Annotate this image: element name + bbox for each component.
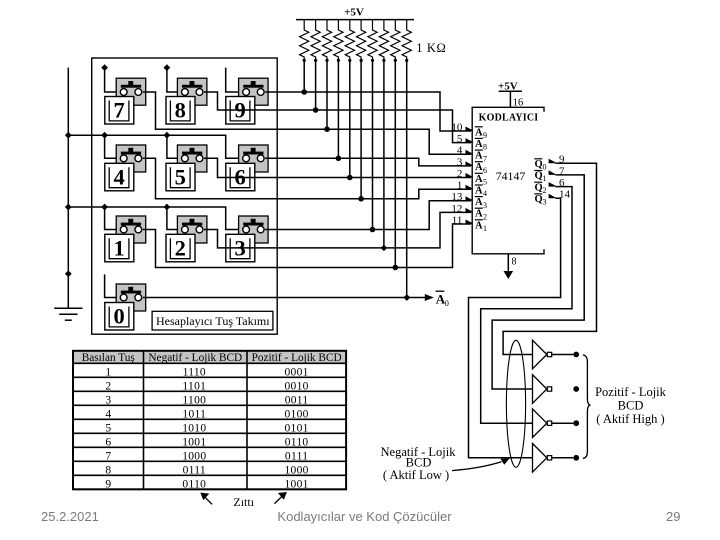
node row456 stub4 junction <box>101 132 108 139</box>
svg-text:1: 1 <box>105 366 111 378</box>
input arrow A7 <box>466 150 473 155</box>
wire pull-up column 5 <box>349 61 351 178</box>
svg-text:+5V: +5V <box>344 7 364 19</box>
resistor R5 1K pull-up <box>345 20 354 61</box>
wire inverter 4 output <box>552 457 574 459</box>
node row123 stub2 junction <box>164 204 171 211</box>
svg-text:0111: 0111 <box>183 464 206 476</box>
push-button switch key 9 <box>239 78 269 105</box>
svg-text:1000: 1000 <box>284 464 308 476</box>
node rail-row123 junction <box>65 204 72 211</box>
node column8 junction <box>381 245 387 251</box>
svg-text:1001: 1001 <box>284 478 308 490</box>
input arrow A1 <box>466 220 473 225</box>
svg-text:4: 4 <box>483 189 487 198</box>
resistor R2 1K pull-up <box>311 20 320 61</box>
wire pull-up column 8 <box>383 61 385 248</box>
node inverter 1 output dot <box>573 352 579 358</box>
svg-text:1: 1 <box>457 180 463 192</box>
wire stub key8 <box>167 68 181 92</box>
wire key1 to A1 <box>143 224 471 268</box>
push-button switch key 2 <box>177 216 207 243</box>
input arrow A9 <box>466 127 473 132</box>
svg-text:8: 8 <box>105 464 111 476</box>
svg-text:0001: 0001 <box>284 366 308 378</box>
wire key5 to A5 <box>204 158 471 177</box>
resistor R9 1K pull-up <box>391 20 400 61</box>
svg-text:Basılan Tuş: Basılan Tuş <box>82 352 135 364</box>
svg-text:A: A <box>475 127 483 138</box>
node column3 junction <box>324 126 330 132</box>
resistor R4 1K pull-up <box>334 20 343 61</box>
svg-text:4: 4 <box>113 164 124 189</box>
wire stub key1 <box>105 207 120 230</box>
svg-text:5: 5 <box>175 164 186 189</box>
svg-text:12: 12 <box>451 203 462 215</box>
svg-text:1: 1 <box>543 174 547 183</box>
svg-text:2: 2 <box>105 380 111 392</box>
node rail-row0 junction <box>65 270 72 277</box>
node inverter 3 output dot <box>573 420 579 426</box>
node inverter 4 output dot <box>573 455 579 461</box>
wire Q1 to inverter 2 <box>492 175 584 389</box>
wire pull-up column 6 <box>360 61 362 199</box>
svg-text:0111: 0111 <box>285 450 308 462</box>
push-button switch key 5 <box>177 145 207 172</box>
inverter U3 triangle <box>533 375 547 404</box>
ellipse annotation around inverter inputs <box>506 340 525 467</box>
svg-text:11: 11 <box>452 214 463 226</box>
input arrow A8 <box>466 138 473 143</box>
svg-text:Zıttı: Zıttı <box>233 495 254 509</box>
arrow into node A0 <box>425 294 434 301</box>
input arrow A3 <box>466 196 473 201</box>
wire key4 to A4 <box>143 158 471 199</box>
svg-text:KODLAYICI: KODLAYICI <box>479 113 539 124</box>
svg-text:1000: 1000 <box>182 450 206 462</box>
node column2 junction <box>313 107 319 113</box>
svg-text:13: 13 <box>451 191 463 203</box>
arrow Zit right <box>275 496 283 503</box>
svg-text:( Aktif High ): ( Aktif High ) <box>596 412 664 426</box>
svg-text:74147: 74147 <box>496 169 526 183</box>
wire key7 to A7 <box>143 92 471 154</box>
svg-text:2: 2 <box>457 168 463 180</box>
push-button switch key 7 <box>116 78 146 105</box>
svg-text:3: 3 <box>457 156 463 168</box>
wire key3 to A3 <box>265 201 471 230</box>
svg-text:3: 3 <box>483 201 487 210</box>
svg-text:0011: 0011 <box>285 394 309 406</box>
keypad left rail wire <box>67 68 69 309</box>
wire stub key9 <box>226 68 242 92</box>
node column7 junction <box>370 227 376 233</box>
svg-text:Negatif - Lojik BCD: Negatif - Lojik BCD <box>148 352 242 364</box>
wire key8 to A8 <box>204 92 471 143</box>
svg-text:( Aktif Low ): ( Aktif Low ) <box>383 468 449 482</box>
push-button switch key 0 <box>116 284 146 311</box>
wire Q2 to inverter 3 <box>481 187 572 424</box>
svg-text:25.2.2021: 25.2.2021 <box>41 509 99 524</box>
wire inverter 1 output <box>552 354 574 356</box>
svg-text:3: 3 <box>543 198 547 207</box>
wire key0 to A0 node <box>143 297 427 299</box>
node column5 junction <box>347 175 353 181</box>
svg-text:0110: 0110 <box>285 436 309 448</box>
svg-text:0100: 0100 <box>284 408 308 420</box>
inverter U4 triangle <box>533 409 547 438</box>
pin 8 GND stub wire <box>507 254 509 272</box>
push-button switch key 1 <box>116 216 146 243</box>
wire Q0 to inverter 1 <box>503 163 596 354</box>
svg-text:Hesaplayıcı Tuş Takımı: Hesaplayıcı Tuş Takımı <box>156 314 270 328</box>
svg-text:1010: 1010 <box>182 422 206 434</box>
svg-text:1 KΩ: 1 KΩ <box>416 41 446 55</box>
push-button switch key 8 <box>177 78 207 105</box>
brace for positive-logic outputs <box>583 355 591 459</box>
svg-text:A: A <box>475 151 483 162</box>
svg-text:BCD: BCD <box>618 398 644 412</box>
push-button switch key 6 <box>239 145 269 172</box>
svg-text:0101: 0101 <box>284 422 308 434</box>
wire stub key7 <box>105 68 120 92</box>
op-amp, encoder IC U1 74147 box outline <box>472 107 544 254</box>
svg-text:5: 5 <box>483 178 487 187</box>
svg-text:A: A <box>475 174 483 185</box>
svg-text:2: 2 <box>483 212 487 221</box>
svg-text:7: 7 <box>483 154 487 163</box>
svg-text:1011: 1011 <box>182 408 206 420</box>
node column6 junction <box>358 196 364 202</box>
node row-789 stub junction B <box>164 64 171 71</box>
resistor R1 1K pull-up <box>300 20 309 61</box>
+5V supply bus wire <box>296 19 414 21</box>
svg-text:10: 10 <box>451 121 463 133</box>
keypad enclosure box <box>92 58 278 334</box>
resistor R10 1K pull-up <box>402 20 411 61</box>
svg-text:Q: Q <box>535 194 543 205</box>
wire pull-up column 4 <box>337 61 339 158</box>
input arrow A2 <box>466 208 473 213</box>
svg-text:Q: Q <box>535 159 543 170</box>
push-button switch key 3 <box>239 216 269 243</box>
svg-text:A: A <box>475 186 483 197</box>
svg-text:7: 7 <box>113 98 124 123</box>
ground <box>54 307 82 309</box>
wire row-456 bus <box>68 135 241 158</box>
svg-text:29: 29 <box>666 509 680 524</box>
svg-text:1101: 1101 <box>182 380 206 392</box>
svg-text:8: 8 <box>483 143 487 152</box>
wire key9 to A9 <box>265 92 471 131</box>
svg-text:4: 4 <box>105 408 111 420</box>
svg-text:4: 4 <box>457 145 463 157</box>
svg-text:Pozitif - Lojik: Pozitif - Lojik <box>595 385 667 399</box>
node A0 column junction <box>404 294 410 300</box>
keypad caption box Hesaplayici Tus Takimi <box>152 311 273 330</box>
svg-text:7: 7 <box>105 450 111 462</box>
svg-text:1110: 1110 <box>183 366 206 378</box>
node row-789 stub junction A <box>101 64 108 71</box>
svg-text:2: 2 <box>543 186 547 195</box>
svg-text:0: 0 <box>543 162 547 171</box>
resistor R8 1K pull-up <box>379 20 388 61</box>
node row456 stub5 junction <box>164 132 171 139</box>
svg-text:A: A <box>475 220 483 231</box>
node rail-row456 junction <box>65 132 72 139</box>
ground arrow at pin 8 <box>504 271 514 279</box>
output arrow Q1 <box>549 170 556 175</box>
svg-text:6: 6 <box>483 166 487 175</box>
node inverter 2 output dot <box>573 386 579 392</box>
svg-text:0: 0 <box>113 304 124 329</box>
wire pull-up column 3 <box>326 61 328 129</box>
svg-text:5: 5 <box>105 422 111 434</box>
wire stub key4 <box>105 135 120 158</box>
svg-text:1001: 1001 <box>182 436 206 448</box>
wire inverter 3 output <box>552 422 574 424</box>
svg-text:1100: 1100 <box>182 394 206 406</box>
input arrow A5 <box>466 173 473 178</box>
resistor R3 1K pull-up <box>322 20 331 61</box>
svg-text:8: 8 <box>512 257 517 268</box>
input arrow A6 <box>466 161 473 166</box>
wire pull-up column 10 <box>406 61 408 298</box>
inverter U5 triangle <box>533 444 547 473</box>
input arrow A4 <box>466 185 473 190</box>
svg-text:A: A <box>475 162 483 173</box>
output arrow Q3 <box>549 194 556 199</box>
node column10 junction <box>404 294 410 300</box>
svg-text:Q: Q <box>535 171 543 182</box>
node column4 junction <box>336 156 342 162</box>
svg-text:Pozitif - Lojik BCD: Pozitif - Lojik BCD <box>252 352 342 364</box>
svg-text:A: A <box>475 197 483 208</box>
node row123 stub1 junction <box>101 204 108 211</box>
resistor R6 1K pull-up <box>357 20 366 61</box>
wire stub key0 <box>105 274 120 297</box>
svg-text:0110: 0110 <box>182 478 206 490</box>
svg-text:0: 0 <box>445 298 449 308</box>
wire key2 to A2 <box>204 212 471 248</box>
svg-text:1: 1 <box>113 235 124 260</box>
wire Q3 to inverter 4 <box>469 198 561 458</box>
svg-text:2: 2 <box>175 235 186 260</box>
svg-text:0010: 0010 <box>284 380 308 392</box>
wire key6 to A6 <box>265 158 471 166</box>
svg-text:A: A <box>475 139 483 150</box>
wire pull-up column 9 <box>394 61 396 268</box>
svg-text:3: 3 <box>105 394 111 406</box>
svg-text:6: 6 <box>105 436 111 448</box>
svg-text:Kodlayıcılar ve Kod Çözücüler: Kodlayıcılar ve Kod Çözücüler <box>277 509 452 524</box>
svg-text:1: 1 <box>483 224 487 233</box>
wire pull-up column 1 <box>303 61 305 92</box>
svg-text:A: A <box>475 209 483 220</box>
wire stub key2 <box>167 207 181 230</box>
arrow from Negatif label to ellipse <box>452 462 502 471</box>
svg-text:8: 8 <box>175 98 186 123</box>
output arrow Q0 <box>549 159 556 164</box>
push-button switch key 4 <box>116 145 146 172</box>
wire pull-up column 2 <box>315 61 317 110</box>
svg-text:16: 16 <box>513 98 524 109</box>
pin 16 Vcc stub wire <box>509 91 511 107</box>
arrow Zit left <box>205 497 213 505</box>
svg-text:9: 9 <box>483 131 487 140</box>
wire row-123 bus <box>68 207 241 230</box>
wire pull-up column 7 <box>372 61 374 230</box>
svg-text:5: 5 <box>457 133 463 145</box>
node column1 junction <box>301 89 307 95</box>
output arrow Q2 <box>549 182 556 187</box>
node column9 junction <box>393 265 399 271</box>
inverter U2 triangle <box>533 340 547 369</box>
resistor R7 1K pull-up <box>368 20 377 61</box>
truth table <box>73 351 346 364</box>
svg-text:Q: Q <box>535 182 543 193</box>
svg-text:9: 9 <box>105 478 111 490</box>
wire stub key5 <box>167 135 181 158</box>
